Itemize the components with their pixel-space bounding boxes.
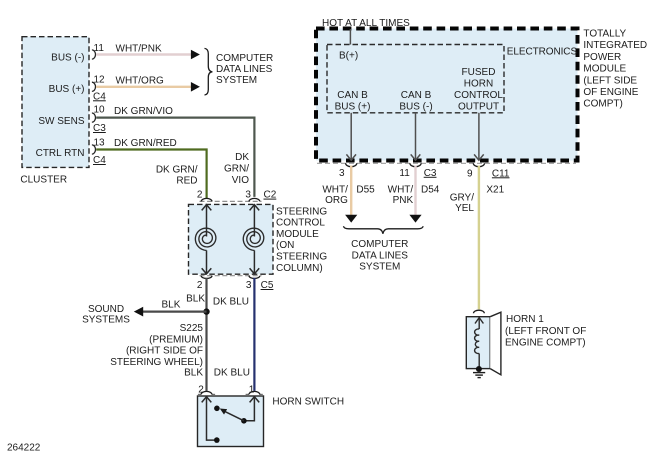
SCM pin 3 bottom connector C5 bbox=[246, 268, 274, 291]
svg-text:COMPUTER: COMPUTER bbox=[216, 53, 273, 64]
svg-text:YEL: YEL bbox=[455, 203, 474, 214]
cluster pin 13 bbox=[92, 138, 105, 155]
underbrace computer data lines system bbox=[344, 226, 424, 272]
svg-text:OUTPUT: OUTPUT bbox=[458, 101, 499, 112]
svg-text:SW SENS: SW SENS bbox=[38, 116, 84, 127]
wire WHT/PNK D54 bbox=[388, 166, 440, 216]
svg-text:BLK: BLK bbox=[184, 368, 203, 379]
svg-text:ELECTRONICS: ELECTRONICS bbox=[507, 46, 578, 57]
svg-text:264222: 264222 bbox=[7, 443, 41, 452]
svg-text:COMPT): COMPT) bbox=[583, 99, 622, 110]
svg-text:(PREMIUM): (PREMIUM) bbox=[149, 334, 203, 345]
SCM bottom connector C5 boundary line bbox=[200, 275, 262, 277]
cluster pin 12 bbox=[92, 74, 105, 91]
svg-text:SYSTEM: SYSTEM bbox=[359, 262, 400, 273]
svg-text:DATA LINES: DATA LINES bbox=[216, 64, 273, 75]
svg-text:CAN B: CAN B bbox=[401, 90, 432, 101]
svg-text:VIO: VIO bbox=[232, 175, 249, 186]
svg-text:D55: D55 bbox=[356, 184, 375, 195]
wire BLK vertical (SCM to horn switch) bbox=[184, 278, 206, 391]
cluster module box bbox=[22, 37, 89, 168]
svg-text:RED: RED bbox=[176, 176, 197, 187]
svg-text:CONTROL: CONTROL bbox=[454, 90, 503, 101]
svg-text:DK: DK bbox=[235, 152, 249, 163]
horn switch contact from pin 1 bbox=[241, 397, 254, 424]
svg-text:9: 9 bbox=[467, 168, 473, 179]
svg-text:BUS (-): BUS (-) bbox=[399, 101, 432, 112]
svg-text:HORN: HORN bbox=[464, 79, 493, 90]
svg-text:10: 10 bbox=[94, 104, 106, 115]
TIPM label bbox=[583, 29, 647, 110]
svg-text:MODULE: MODULE bbox=[276, 229, 319, 240]
svg-text:S225: S225 bbox=[180, 323, 204, 334]
SCM top connector C2 boundary line bbox=[200, 200, 262, 202]
svg-text:C2: C2 bbox=[264, 190, 277, 201]
svg-text:C3: C3 bbox=[424, 168, 437, 179]
wire B(+) feed bbox=[349, 29, 351, 45]
brace computer data lines system (top-left) bbox=[205, 48, 274, 95]
off-page arrow WHT/ORG down bbox=[345, 215, 357, 223]
node CAN B BUS (+) bbox=[335, 90, 371, 160]
svg-text:WHT/PNK: WHT/PNK bbox=[116, 44, 162, 55]
horn switch contact from pin 2 bbox=[207, 397, 220, 443]
svg-text:D54: D54 bbox=[421, 184, 440, 195]
horn switch connector boundary ticks bbox=[198, 393, 263, 395]
off-page arrow WHT/ORG bbox=[191, 82, 200, 92]
svg-text:ORG: ORG bbox=[325, 195, 348, 206]
ground at horn bbox=[473, 373, 485, 378]
svg-text:HORN 1: HORN 1 bbox=[506, 314, 544, 325]
svg-text:CAN B: CAN B bbox=[337, 90, 368, 101]
SCM label bbox=[276, 207, 327, 274]
cluster pin 11 bbox=[92, 43, 104, 59]
node FUSED HORN CONTROL OUTPUT bbox=[454, 67, 503, 160]
SCM pin 3 top connector C2 bbox=[245, 190, 276, 211]
svg-text:COLUMN): COLUMN) bbox=[276, 263, 323, 274]
svg-text:HORN SWITCH: HORN SWITCH bbox=[272, 396, 344, 407]
wire GRY/YEL X21 bbox=[450, 166, 505, 310]
svg-text:SYSTEM: SYSTEM bbox=[216, 75, 257, 86]
horn 1 bbox=[466, 310, 501, 375]
TIPM box (totally integrated power module) bbox=[316, 29, 578, 161]
wire DK GRN/VIO bbox=[96, 106, 254, 197]
svg-text:2: 2 bbox=[197, 280, 203, 291]
svg-text:DK BLU: DK BLU bbox=[214, 368, 250, 379]
svg-text:WHT/ORG: WHT/ORG bbox=[116, 76, 165, 87]
node CAN B BUS (-) bbox=[399, 90, 432, 160]
off-page arrow WHT/PNK bbox=[191, 50, 200, 60]
svg-text:COMPUTER: COMPUTER bbox=[351, 239, 408, 250]
svg-text:DK BLU: DK BLU bbox=[213, 296, 249, 307]
svg-text:GRN/: GRN/ bbox=[224, 164, 249, 175]
svg-text:(LEFT FRONT OF: (LEFT FRONT OF bbox=[505, 326, 586, 337]
steering control module box bbox=[189, 204, 274, 274]
svg-text:FUSED: FUSED bbox=[462, 67, 496, 78]
SCM pin 2 bottom bbox=[197, 268, 212, 291]
svg-text:3: 3 bbox=[339, 168, 345, 179]
clockspring coil right bbox=[243, 205, 263, 274]
svg-text:HOT AT ALL TIMES: HOT AT ALL TIMES bbox=[322, 18, 410, 29]
horn 1 label bbox=[505, 314, 586, 349]
svg-text:SYSTEMS: SYSTEMS bbox=[82, 315, 130, 326]
svg-text:X21: X21 bbox=[486, 185, 504, 196]
SCM pin 2 top bbox=[197, 190, 212, 211]
off-page arrow to sound systems bbox=[134, 307, 143, 317]
svg-text:C5: C5 bbox=[261, 280, 274, 291]
svg-text:2: 2 bbox=[197, 190, 203, 201]
svg-text:CLUSTER: CLUSTER bbox=[20, 175, 67, 186]
svg-text:CTRL RTN: CTRL RTN bbox=[36, 148, 85, 159]
svg-text:POWER: POWER bbox=[583, 52, 621, 63]
svg-text:ENGINE COMPT): ENGINE COMPT) bbox=[505, 338, 586, 349]
svg-text:BUS (+): BUS (+) bbox=[49, 84, 85, 95]
horn switch movable arm bbox=[214, 406, 244, 421]
svg-text:C3: C3 bbox=[93, 123, 106, 134]
svg-text:GRY/: GRY/ bbox=[450, 193, 474, 204]
svg-text:BLK: BLK bbox=[162, 300, 181, 311]
cluster pin 10 bbox=[92, 104, 105, 122]
splice S225 bbox=[110, 308, 209, 368]
svg-text:DK GRN/RED: DK GRN/RED bbox=[114, 138, 177, 149]
svg-text:(LEFT SIDE: (LEFT SIDE bbox=[583, 75, 637, 86]
wire DK GRN/RED bbox=[96, 138, 206, 199]
svg-text:BLK: BLK bbox=[186, 294, 205, 305]
svg-text:C4: C4 bbox=[93, 155, 106, 166]
svg-text:DK GRN/: DK GRN/ bbox=[156, 164, 198, 175]
svg-text:OF ENGINE: OF ENGINE bbox=[583, 87, 638, 98]
svg-text:WHT/: WHT/ bbox=[322, 184, 348, 195]
svg-text:(RIGHT SIDE OF: (RIGHT SIDE OF bbox=[126, 346, 203, 357]
svg-text:WHT/: WHT/ bbox=[388, 184, 414, 195]
wire WHT/ORG bbox=[96, 76, 191, 87]
svg-text:PNK: PNK bbox=[393, 195, 414, 206]
svg-text:11: 11 bbox=[399, 168, 410, 179]
svg-text:BUS (+): BUS (+) bbox=[335, 101, 371, 112]
label sound systems bbox=[82, 304, 130, 326]
horn switch pin 1 bbox=[249, 385, 260, 403]
svg-text:DK GRN/VIO: DK GRN/VIO bbox=[114, 106, 173, 117]
svg-text:INTEGRATED: INTEGRATED bbox=[583, 40, 647, 51]
off-page arrow WHT/PNK down bbox=[409, 215, 421, 223]
wire WHT/PNK bbox=[96, 44, 191, 55]
svg-text:B(+): B(+) bbox=[339, 51, 358, 62]
svg-text:(ON: (ON bbox=[276, 240, 294, 251]
TIPM pin 9 connector C11 bbox=[467, 163, 510, 179]
svg-text:3: 3 bbox=[246, 280, 252, 291]
svg-text:STEERING: STEERING bbox=[276, 252, 327, 263]
wire BLK to sound systems bbox=[142, 300, 207, 312]
horn switch box bbox=[198, 396, 264, 447]
svg-text:STEERING WHEEL): STEERING WHEEL) bbox=[110, 357, 203, 368]
svg-text:TOTALLY: TOTALLY bbox=[583, 29, 626, 40]
horn switch pin 2 bbox=[198, 385, 212, 403]
TIPM pin 3 bbox=[339, 163, 357, 179]
svg-text:C11: C11 bbox=[492, 168, 510, 179]
clockspring coil left bbox=[195, 205, 215, 274]
wire DK BLU (SCM to horn switch) bbox=[213, 278, 255, 391]
TIPM pin 11 connector C3 bbox=[399, 163, 437, 179]
svg-text:DATA LINES: DATA LINES bbox=[352, 250, 409, 261]
svg-text:STEERING: STEERING bbox=[276, 207, 327, 218]
wire WHT/ORG D55 bbox=[322, 166, 375, 216]
svg-text:MODULE: MODULE bbox=[583, 64, 626, 75]
electronics box bbox=[327, 45, 577, 113]
TIPM bottom connector boundary line bbox=[317, 162, 576, 164]
svg-text:SOUND: SOUND bbox=[88, 304, 124, 315]
svg-text:C4: C4 bbox=[93, 91, 106, 102]
svg-text:BUS (-): BUS (-) bbox=[51, 53, 84, 64]
svg-text:CONTROL: CONTROL bbox=[276, 218, 325, 229]
